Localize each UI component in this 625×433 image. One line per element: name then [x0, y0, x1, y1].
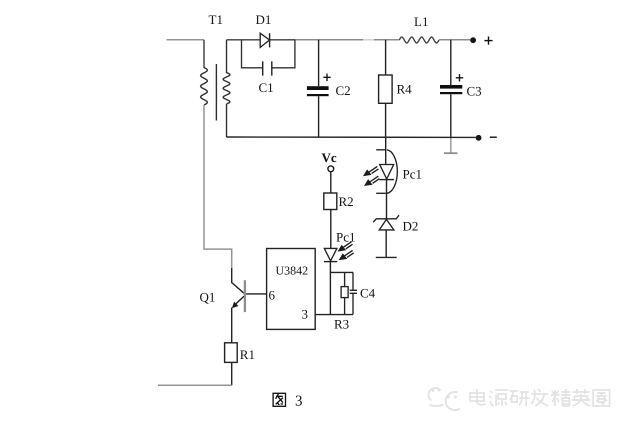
svg-text:C1: C1: [259, 80, 274, 95]
svg-text:Pc1: Pc1: [403, 167, 423, 182]
light arrows: [364, 166, 379, 185]
svg-text:R3: R3: [334, 317, 349, 332]
op-amp U1: IC U3842 box: [267, 249, 316, 330]
wire: [204, 105, 232, 268]
wire: [272, 40, 295, 68]
plus sign: [323, 74, 330, 81]
svg-text:C3: C3: [467, 84, 482, 99]
node + output terminal: [470, 37, 476, 43]
svg-text:R1: R1: [240, 347, 255, 362]
wire: [167, 39, 205, 41]
node - output terminal: [476, 135, 482, 141]
svg-text:C4: C4: [360, 286, 376, 301]
terminal bar: [444, 152, 457, 154]
diode D1: [260, 33, 269, 47]
svg-text:C2: C2: [336, 83, 351, 98]
transistor Q1: [232, 280, 245, 312]
capacitor C2: [307, 40, 329, 137]
svg-text:3: 3: [302, 307, 309, 322]
svg-text:R4: R4: [397, 82, 413, 97]
wire: [329, 262, 331, 315]
minus sign: [490, 136, 497, 138]
wire: [374, 39, 399, 41]
wire C3 tail: [450, 137, 452, 153]
svg-text:Vc: Vc: [322, 150, 337, 165]
watermark logo: [428, 388, 459, 410]
resistor R2: [324, 193, 337, 210]
light arrows: [339, 242, 354, 259]
resistor R4: [379, 40, 393, 137]
plus sign: [456, 74, 463, 81]
svg-text:R2: R2: [339, 194, 354, 209]
caption: figure label 图: [273, 393, 285, 406]
transformer T1 secondary winding: [223, 40, 230, 137]
wire: [330, 172, 332, 193]
transformer T1 primary winding: [201, 40, 208, 105]
optocoupler arc: [387, 150, 397, 194]
zener diode D2: [373, 215, 399, 257]
node: bottom rail: [227, 136, 476, 138]
wire: [330, 210, 332, 249]
capacitor C3: [440, 40, 462, 137]
capacitor C4: [350, 272, 357, 314]
wire faded segment: [363, 39, 374, 41]
wire: [231, 268, 233, 283]
svg-text:Q1: Q1: [200, 290, 216, 305]
inductor L1: [399, 37, 439, 43]
svg-text:3: 3: [295, 394, 303, 410]
wire pin 3: [315, 314, 353, 316]
wire: [330, 271, 353, 273]
wire pin 6: [245, 293, 266, 295]
node: top rail (secondary+): [227, 39, 261, 41]
wire: [158, 384, 232, 386]
watermark text: [470, 389, 610, 406]
capacitor C1: [263, 61, 272, 75]
svg-text:D2: D2: [403, 219, 419, 234]
wire: [242, 40, 263, 68]
wire: [231, 362, 233, 385]
wire: [231, 308, 233, 343]
svg-text:T1: T1: [209, 12, 223, 27]
svg-text:U3842: U3842: [276, 263, 309, 277]
node Vc: [328, 166, 334, 172]
wire: [439, 39, 470, 41]
transformer T1 core: [215, 64, 217, 121]
optocoupler Pc1 photodiode: [324, 248, 337, 261]
plus sign: [484, 37, 492, 45]
svg-text:Pc1: Pc1: [336, 230, 356, 245]
svg-text:L1: L1: [414, 14, 428, 29]
optocoupler Pc1 LED: [376, 137, 394, 219]
resistor R1: [225, 343, 238, 363]
svg-text:D1: D1: [256, 12, 272, 27]
svg-text:6: 6: [269, 288, 276, 303]
resistor R3: [341, 272, 348, 314]
